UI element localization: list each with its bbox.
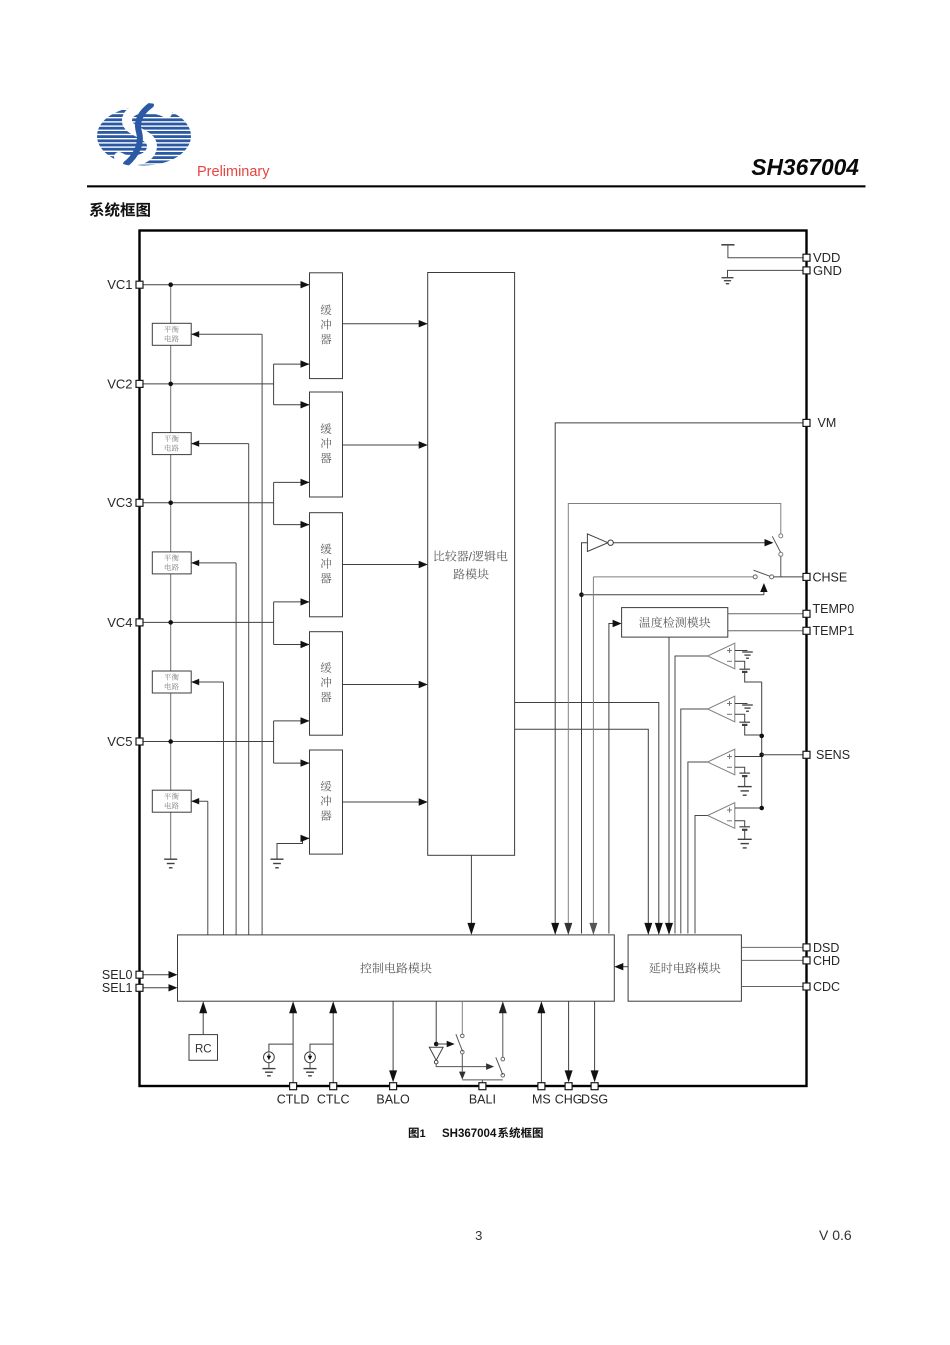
svg-text:1: 1: [420, 1128, 426, 1140]
svg-text:CTLD: CTLD: [277, 1092, 310, 1106]
svg-text:CDC: CDC: [813, 980, 840, 994]
svg-text:VC4: VC4: [107, 615, 132, 630]
svg-text:CTLC: CTLC: [317, 1092, 350, 1106]
svg-text:CHSE: CHSE: [813, 570, 848, 584]
svg-text:MS: MS: [532, 1092, 551, 1106]
svg-text:BALO: BALO: [376, 1092, 410, 1106]
svg-text:CHD: CHD: [813, 954, 840, 968]
svg-text:VC3: VC3: [107, 495, 132, 510]
svg-text:VM: VM: [818, 416, 837, 430]
svg-text:3: 3: [475, 1228, 482, 1243]
svg-text:V 0.6: V 0.6: [819, 1227, 852, 1243]
svg-text:VC1: VC1: [107, 277, 132, 292]
svg-text:VC2: VC2: [107, 376, 132, 391]
svg-text:SEL1: SEL1: [102, 981, 133, 995]
svg-text:TEMP0: TEMP0: [813, 602, 855, 616]
svg-text:DSD: DSD: [813, 941, 839, 955]
svg-text:DSG: DSG: [581, 1092, 608, 1106]
svg-text:SH367004: SH367004: [442, 1128, 497, 1140]
svg-text:RC: RC: [195, 1043, 212, 1055]
svg-text:TEMP1: TEMP1: [813, 624, 855, 638]
svg-text:SENS: SENS: [816, 748, 850, 762]
svg-text:BALI: BALI: [469, 1092, 496, 1106]
svg-text:SH367004: SH367004: [751, 154, 859, 180]
svg-text:GND: GND: [813, 263, 842, 278]
svg-text:SEL0: SEL0: [102, 968, 133, 982]
svg-text:VC5: VC5: [107, 734, 132, 749]
svg-text:Preliminary: Preliminary: [197, 164, 270, 180]
svg-text:CHG: CHG: [555, 1092, 583, 1106]
